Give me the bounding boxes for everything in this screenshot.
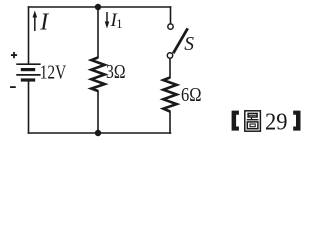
wire middle lower (3-ohm resistor to node B) <box>97 91 99 133</box>
svg-text:3Ω: 3Ω <box>106 62 126 83</box>
switch S terminal top <box>168 24 173 29</box>
node B (bottom junction) <box>95 130 101 136</box>
switch S terminal bottom <box>167 53 172 58</box>
wire left lower (battery - to bottom wire) <box>28 81 30 133</box>
resistor R2 6-ohm zigzag <box>163 78 176 112</box>
wire right upper (top wire to switch terminal) <box>170 7 172 24</box>
svg-text:1: 1 <box>116 17 122 31</box>
wire bottom <box>29 132 171 134</box>
caption right lenticular bracket <box>293 111 300 131</box>
wire right lower (6-ohm resistor to bottom wire) <box>169 112 171 134</box>
caption glyph TU (figure) <box>245 111 261 131</box>
caption figure 29: left lenticular bracket <box>232 111 239 131</box>
svg-text:29: 29 <box>265 109 288 135</box>
current arrow I1 (down) <box>105 12 110 29</box>
svg-text:S: S <box>184 34 194 55</box>
current arrow I (up) <box>33 11 38 32</box>
battery minus sign <box>10 86 16 88</box>
switch S blade <box>173 28 188 53</box>
wire left upper (top wire to battery +) <box>28 7 30 64</box>
wire top (node A to switch branch) <box>29 6 171 8</box>
battery plus sign <box>11 52 17 58</box>
resistor R1 3-ohm zigzag <box>91 58 104 92</box>
wire switch to 6-ohm resistor <box>169 58 171 77</box>
wire middle upper (node A to 3-ohm resistor) <box>97 7 99 58</box>
node A (top junction) <box>95 4 101 10</box>
battery V1 12V <box>16 64 40 80</box>
svg-text:I: I <box>39 10 49 36</box>
svg-text:6Ω: 6Ω <box>181 85 202 106</box>
svg-text:12V: 12V <box>40 63 66 84</box>
